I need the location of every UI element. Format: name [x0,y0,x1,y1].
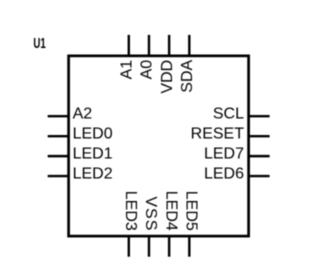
pin A2 (left, pin line) [48,115,69,117]
svg-text:LED4: LED4 [162,191,179,231]
svg-text:SDA: SDA [179,59,196,92]
svg-text:LED1: LED1 [73,146,113,163]
pin SCL (right, pin line) [249,115,270,117]
pin RESET (right, pin line) [249,135,270,137]
svg-text:A2: A2 [73,106,93,123]
svg-text:LED5: LED5 [183,191,200,231]
pin VSS (bottom, pin line) [148,236,150,257]
pin LED3 (bottom, pin line) [128,236,130,257]
svg-text:LED6: LED6 [204,166,244,183]
pin LED2 (left, pin line) [48,175,69,177]
svg-text:SCL: SCL [213,106,244,123]
svg-text:LED7: LED7 [204,146,244,163]
pin LED0 (left, pin line) [48,135,69,137]
pin LED6 (right, pin line) [249,175,270,177]
svg-text:U1: U1 [33,35,45,52]
pin A0 (top, pin line) [148,35,150,56]
svg-text:LED3: LED3 [122,191,139,231]
pin A1 (top, pin line) [128,35,130,56]
svg-text:LED0: LED0 [73,126,113,143]
IC U1 body [69,56,249,236]
svg-text:VSS: VSS [142,196,159,231]
pin VDD (top, pin line) [168,35,170,56]
svg-text:RESET: RESET [191,126,245,143]
pin LED7 (right, pin line) [249,155,270,157]
svg-text:A0: A0 [139,60,156,80]
svg-text:A1: A1 [119,60,136,80]
svg-text:VDD: VDD [159,60,176,94]
pin SDA (top, pin line) [188,35,190,56]
pin LED4 (bottom, pin line) [168,236,170,257]
svg-text:LED2: LED2 [73,166,113,183]
pin LED1 (left, pin line) [48,155,69,157]
pin LED5 (bottom, pin line) [188,236,190,257]
